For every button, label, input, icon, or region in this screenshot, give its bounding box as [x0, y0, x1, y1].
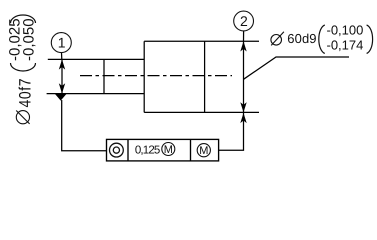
modifier M circle 1 [162, 143, 175, 157]
wire large section top line with extension [144, 40, 259, 42]
arrow FCF leader pointing up [240, 113, 246, 123]
wire bottom line of small shaft section [47, 93, 145, 95]
svg-text:40f7: 40f7 [15, 78, 34, 108]
balloon 1 [51, 33, 71, 53]
wire leader from FCF right to dimension [219, 112, 244, 150]
wire leader of Ø60d9 text [244, 57, 350, 79]
dimension text Ø40f7 with tolerances (rotated) [7, 15, 38, 124]
svg-text:0,125: 0,125 [135, 144, 160, 156]
arrow dim Ø40 top [59, 59, 65, 69]
svg-text:M: M [199, 145, 208, 157]
datum triangle on Ø40 [55, 94, 67, 101]
dimension text Ø60d9 with tolerances [271, 23, 373, 54]
svg-text:60d9: 60d9 [287, 31, 316, 46]
svg-text:2: 2 [240, 13, 248, 29]
svg-text:-0,174: -0,174 [327, 37, 364, 52]
centerline [80, 75, 232, 77]
wire balloon 2 leader [243, 31, 245, 41]
diameter symbol [271, 35, 282, 46]
svg-text:-0,050: -0,050 [20, 18, 37, 61]
concentricity symbol [110, 143, 124, 157]
modifier M circle 2 (datum) [197, 144, 210, 158]
feature control frame [107, 139, 219, 161]
arrow dim Ø40 bottom [59, 83, 65, 93]
arrow dim Ø60 top [240, 41, 246, 51]
wire top line of small shaft section [48, 58, 144, 60]
svg-text:-0,100: -0,100 [327, 23, 364, 38]
wire interior step line in small section [103, 59, 105, 93]
wire large section right face [204, 41, 206, 112]
arrow dim Ø60 bottom [240, 102, 246, 112]
wire large section bottom line with extension [144, 111, 259, 113]
wire left end face / dimension line of Ø40 [61, 59, 63, 93]
dimension line Ø60 [243, 41, 245, 112]
wire large section left face [143, 41, 145, 112]
svg-text:M: M [164, 144, 173, 156]
diameter symbol [16, 111, 29, 124]
svg-text:1: 1 [58, 35, 66, 51]
wire balloon 1 leader [61, 53, 63, 60]
balloon 2 [234, 11, 254, 31]
wire datum leader left [62, 100, 107, 151]
